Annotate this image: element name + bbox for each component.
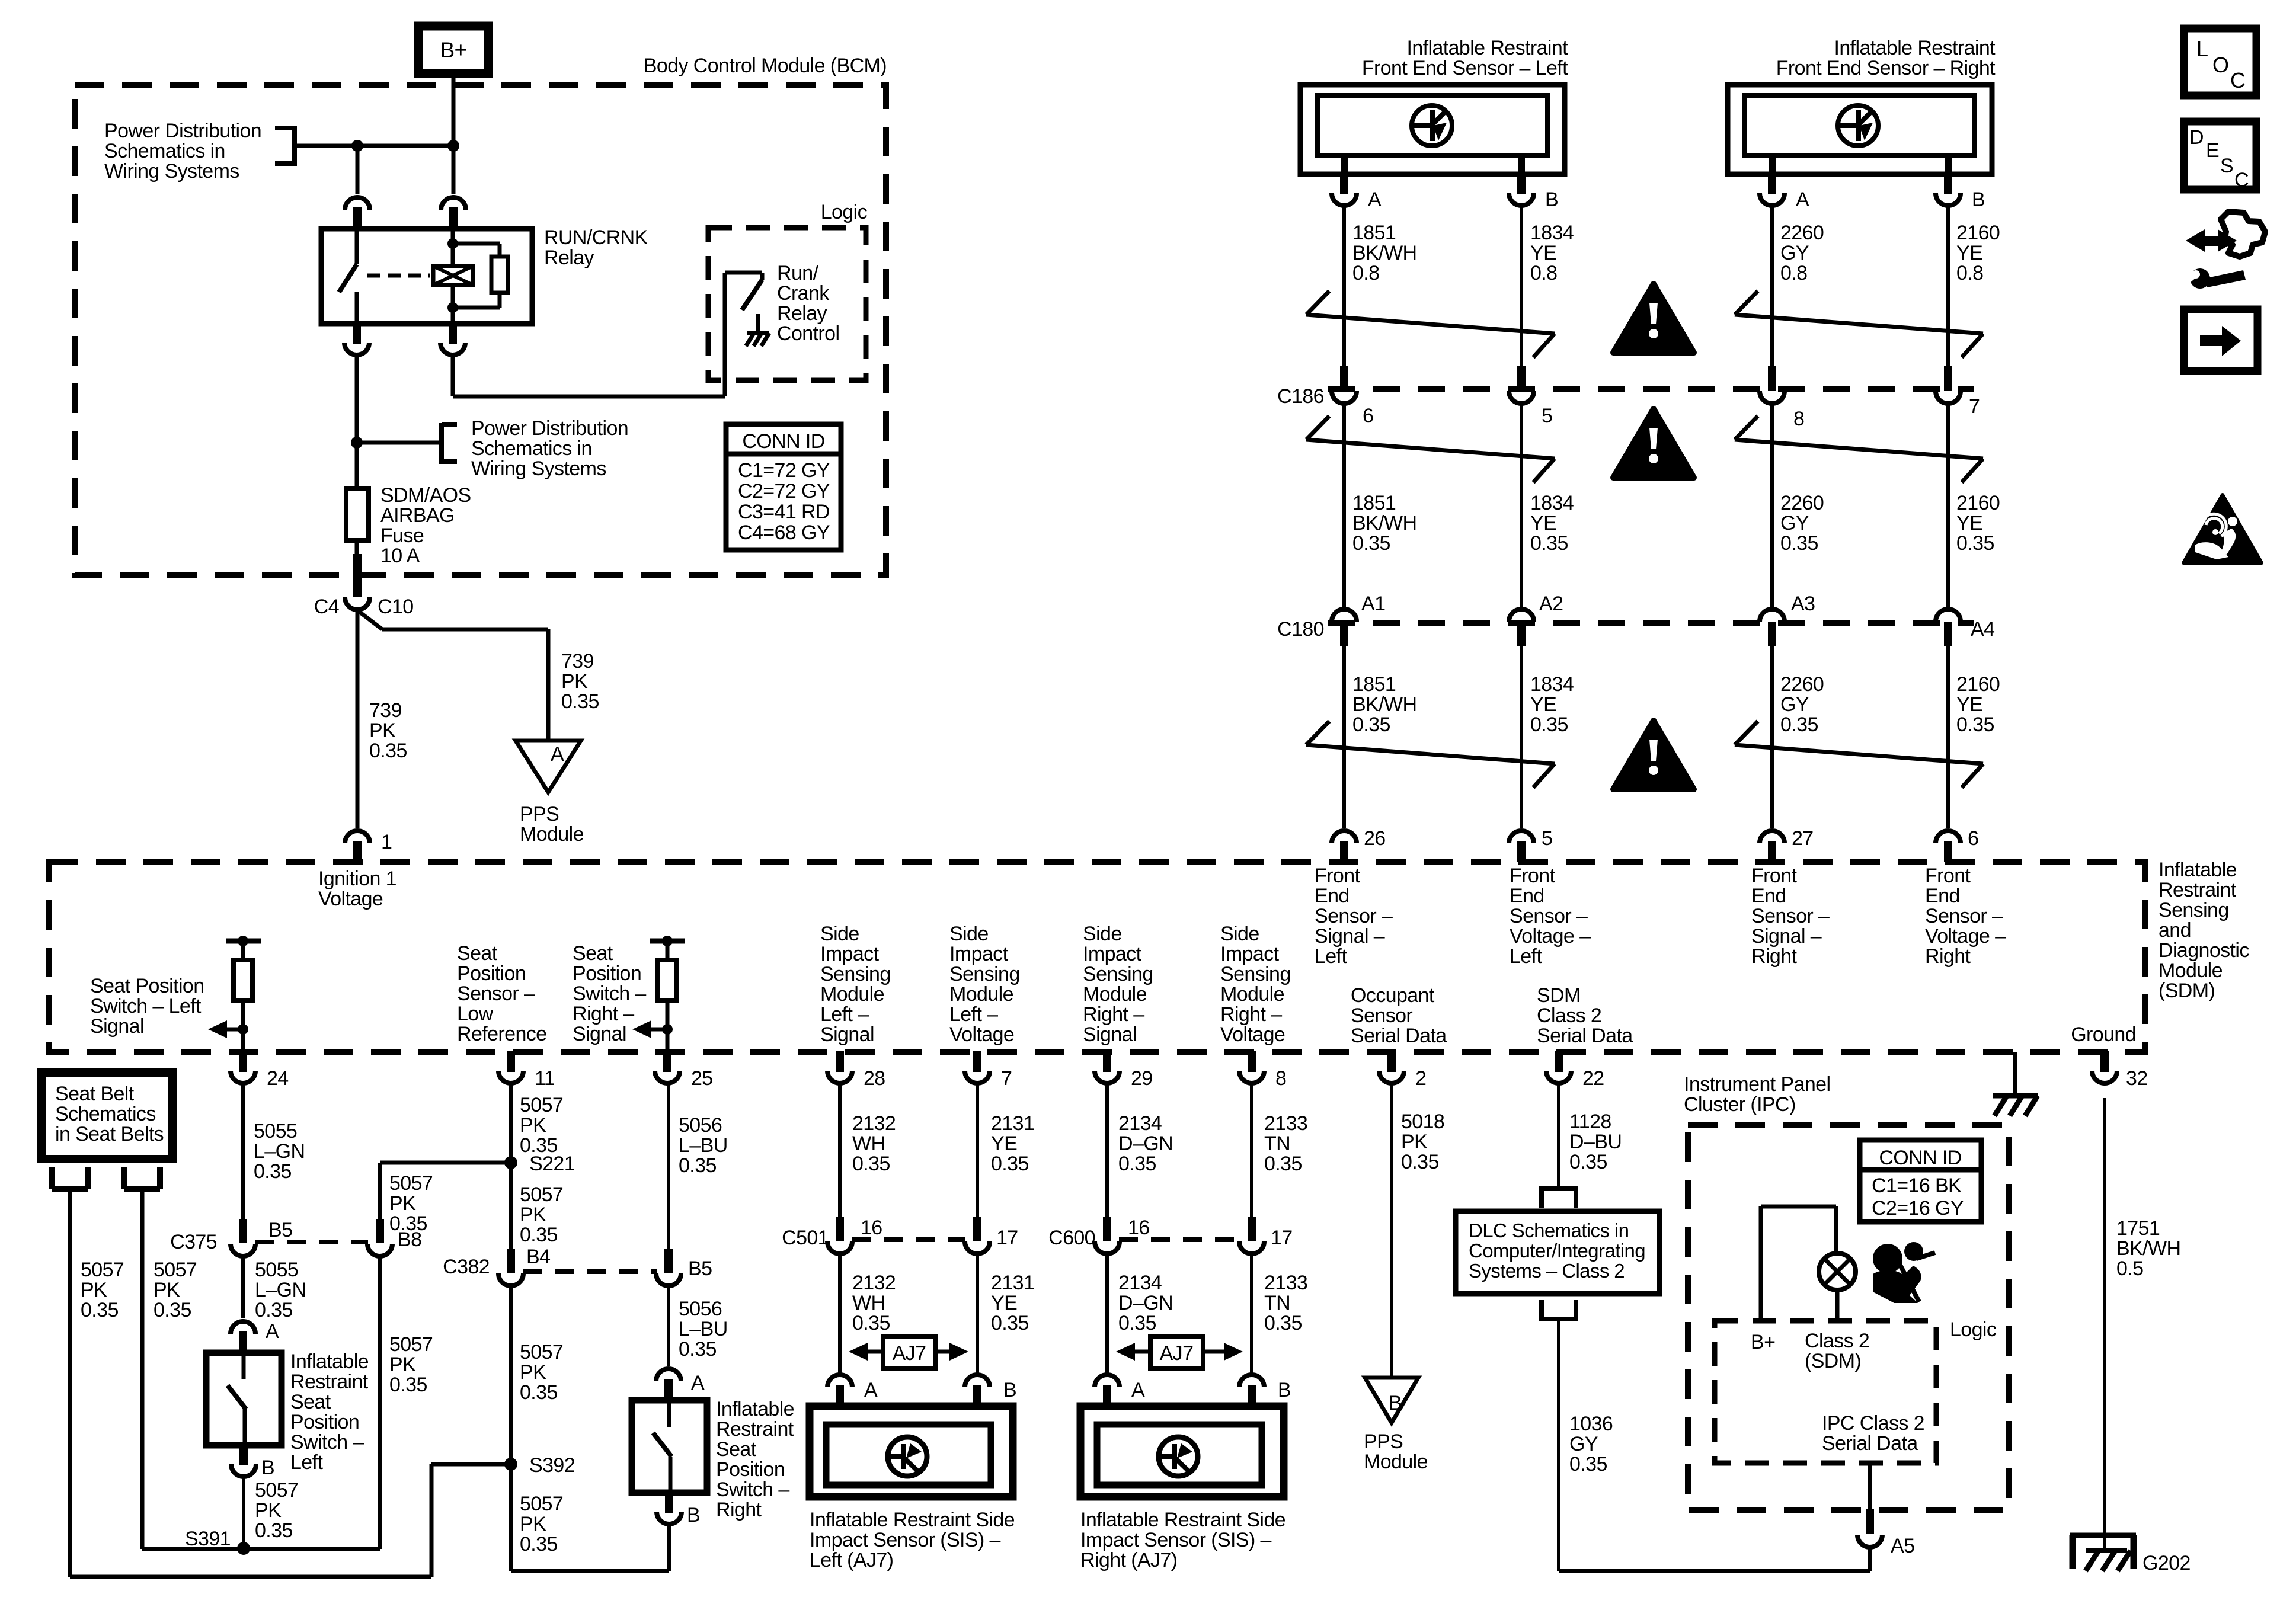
connector SIS right pin B xyxy=(1239,1375,1291,1406)
svg-text:0.35: 0.35 xyxy=(520,1533,558,1555)
svg-text:PK: PK xyxy=(520,1361,546,1384)
connector SDM pin 6 (top) xyxy=(1936,827,1978,862)
connector SIS left pin A xyxy=(827,1375,878,1406)
svg-text:A4: A4 xyxy=(1971,618,1994,641)
svg-text:Schematics in: Schematics in xyxy=(104,140,225,162)
svg-text:Switch –: Switch – xyxy=(573,982,646,1005)
svg-text:Sensor –: Sensor – xyxy=(457,982,535,1005)
component Inflatable Restraint Side Impact Sensor (SIS) - Right xyxy=(1080,1406,1284,1497)
label Occupant Sensor Serial Data xyxy=(1351,984,1447,1047)
svg-text:Module: Module xyxy=(949,983,1013,1006)
svg-text:Switch –: Switch – xyxy=(290,1431,364,1454)
svg-text:GY: GY xyxy=(1780,242,1809,264)
svg-text:B+: B+ xyxy=(1751,1331,1775,1353)
label wire 2133 TN 0.35 (lower) xyxy=(1264,1272,1307,1334)
svg-text:2: 2 xyxy=(1415,1067,1426,1090)
svg-text:Inflatable Restraint Side: Inflatable Restraint Side xyxy=(810,1509,1015,1531)
label wire 2260 GY 0.8 xyxy=(1780,222,1824,284)
svg-text:A2: A2 xyxy=(1539,593,1563,615)
svg-text:Right: Right xyxy=(1925,945,1971,968)
label Front End Sensor - Signal - Left xyxy=(1315,865,1393,968)
svg-text:(SDM): (SDM) xyxy=(1805,1350,1861,1372)
harness marker AJ7 left xyxy=(849,1337,968,1368)
svg-text:Schematics in: Schematics in xyxy=(471,437,592,460)
svg-text:Systems – Class 2: Systems – Class 2 xyxy=(1469,1260,1625,1282)
label Ignition 1 Voltage (SDM pin 1) xyxy=(318,868,396,910)
svg-text:A3: A3 xyxy=(1791,593,1815,615)
label wire 2260 GY 0.35 (lower) xyxy=(1780,673,1824,736)
svg-text:Switch – Left: Switch – Left xyxy=(90,995,202,1017)
svg-text:YE: YE xyxy=(1530,512,1556,534)
svg-text:RUN/CRNK: RUN/CRNK xyxy=(544,226,648,249)
label Seat Position Switch - Right - Signal xyxy=(573,942,646,1045)
svg-text:Inflatable: Inflatable xyxy=(716,1398,794,1420)
label wire 2134 D-GN 0.35 (upper) xyxy=(1118,1112,1173,1175)
label wire 2131 YE 0.35 (upper) xyxy=(991,1112,1034,1175)
svg-text:Sensor –: Sensor – xyxy=(1510,905,1588,927)
svg-text:6: 6 xyxy=(1968,827,1978,850)
svg-text:C: C xyxy=(2230,68,2245,92)
wire 2134 D-GN 0.35 pin 29 to C600 xyxy=(1105,1084,1109,1217)
connector C375 pin B5 xyxy=(231,1219,292,1256)
label wire 1751 BK/WH 0.5 xyxy=(2116,1217,2180,1280)
svg-text:L–BU: L–BU xyxy=(679,1134,728,1157)
signal arrow seat position switch left xyxy=(208,1020,243,1038)
svg-text:D–GN: D–GN xyxy=(1118,1292,1173,1314)
svg-text:Cluster (IPC): Cluster (IPC) xyxy=(1684,1093,1796,1116)
svg-text:BK/WH: BK/WH xyxy=(1352,242,1416,264)
svg-text:Fuse: Fuse xyxy=(380,524,424,547)
svg-text:Right: Right xyxy=(1751,945,1798,968)
svg-text:Sensing: Sensing xyxy=(2159,899,2229,921)
svg-text:AIRBAG: AIRBAG xyxy=(380,504,455,527)
svg-text:Power Distribution: Power Distribution xyxy=(104,120,261,142)
connector SDM pin 29 xyxy=(1095,1051,1153,1090)
svg-text:0.35: 0.35 xyxy=(255,1299,293,1321)
svg-text:Inflatable Restraint Side: Inflatable Restraint Side xyxy=(1080,1509,1285,1531)
svg-text:Left: Left xyxy=(1510,945,1542,968)
svg-text:O: O xyxy=(2212,53,2228,77)
label wire 739 PK 0.35 (left) xyxy=(369,699,407,762)
svg-text:C: C xyxy=(2234,169,2249,191)
label wire 5055 L-GN 0.35 (upper) xyxy=(254,1120,305,1183)
svg-text:0.35: 0.35 xyxy=(255,1519,293,1542)
wire lamp to IPC logic box xyxy=(1835,1290,1840,1321)
svg-text:C10: C10 xyxy=(378,596,414,618)
svg-text:L–BU: L–BU xyxy=(679,1318,728,1340)
svg-text:0.35: 0.35 xyxy=(154,1299,191,1321)
svg-text:Right –: Right – xyxy=(1083,1003,1144,1026)
connector SDM pin 27 xyxy=(1760,827,1814,862)
svg-text:Diagnostic: Diagnostic xyxy=(2159,939,2249,962)
svg-text:Inflatable: Inflatable xyxy=(2159,859,2237,881)
svg-text:26: 26 xyxy=(1364,827,1386,850)
svg-text:Sensor –: Sensor – xyxy=(1925,905,2003,927)
svg-text:Left: Left xyxy=(290,1451,323,1474)
svg-text:End: End xyxy=(1925,885,1960,907)
svg-text:Serial Data: Serial Data xyxy=(1537,1025,1633,1047)
connector tab seat belt feed 2 xyxy=(124,1167,160,1189)
svg-text:B: B xyxy=(261,1457,274,1479)
svg-text:5057: 5057 xyxy=(520,1341,563,1363)
svg-text:PK: PK xyxy=(520,1513,546,1535)
svg-text:Inflatable Restraint: Inflatable Restraint xyxy=(1407,37,1569,59)
svg-text:Occupant: Occupant xyxy=(1351,984,1435,1007)
wire 2160 YE 0.35 C180 to SDM pin 6 xyxy=(1946,646,1950,828)
svg-text:Position: Position xyxy=(716,1458,785,1481)
svg-text:0.35: 0.35 xyxy=(679,1154,717,1177)
label Class 2 (SDM) xyxy=(1805,1330,1869,1372)
svg-text:in Seat Belts: in Seat Belts xyxy=(55,1123,164,1145)
wire 5056 L-BU 0.35 B5 to switch right A xyxy=(667,1285,670,1366)
svg-text:1: 1 xyxy=(381,831,392,853)
svg-text:Computer/Integrating: Computer/Integrating xyxy=(1469,1240,1645,1262)
svg-text:2160: 2160 xyxy=(1956,673,2000,696)
svg-text:Module: Module xyxy=(1364,1451,1428,1473)
interrupt symbol row 3 left pair xyxy=(1306,721,1555,788)
connector SDM pin 11 xyxy=(498,1051,555,1090)
connector C186 pin 5 xyxy=(1509,366,1552,427)
svg-text:S221: S221 xyxy=(529,1153,575,1175)
svg-text:PK: PK xyxy=(1401,1131,1428,1153)
svg-text:L: L xyxy=(2196,37,2208,61)
svg-text:Signal –: Signal – xyxy=(1751,925,1822,948)
svg-text:0.35: 0.35 xyxy=(991,1153,1029,1175)
svg-text:0.35: 0.35 xyxy=(369,740,407,762)
switch Run/Crank Relay Control xyxy=(742,273,762,310)
svg-text:Impact Sensor (SIS) –: Impact Sensor (SIS) – xyxy=(810,1529,1001,1551)
lamp airbag indicator (IPC) xyxy=(1819,1253,1856,1290)
connector front sensor left pin B xyxy=(1509,173,1558,211)
svg-text:DLC Schematics in: DLC Schematics in xyxy=(1469,1219,1629,1241)
svg-text:Run/: Run/ xyxy=(777,262,819,284)
label Side Impact Sensing Module Left - Voltage xyxy=(949,923,1020,1046)
svg-text:2260: 2260 xyxy=(1780,673,1824,696)
wire 1834 YE 0.35 C180 to SDM pin 5 xyxy=(1520,646,1523,828)
bracket DLC output xyxy=(1539,1300,1578,1319)
svg-text:0.35: 0.35 xyxy=(1780,532,1818,555)
svg-text:Impact Sensor (SIS) –: Impact Sensor (SIS) – xyxy=(1080,1529,1272,1551)
svg-text:25: 25 xyxy=(691,1067,713,1090)
icon airbag caution triangle xyxy=(2183,495,2262,563)
table CONN ID (IPC) xyxy=(1860,1140,1981,1222)
svg-text:0.35: 0.35 xyxy=(254,1160,292,1183)
label wire 2131 YE 0.35 (lower) xyxy=(991,1272,1034,1334)
node splice S391 xyxy=(185,1528,250,1555)
warning triangle row 2 xyxy=(1613,409,1694,478)
svg-text:Right –: Right – xyxy=(573,1003,634,1025)
module box Instrument Panel Cluster (IPC) dashed outline xyxy=(1688,1125,2009,1510)
svg-text:B5: B5 xyxy=(688,1257,712,1280)
off-page reference B to PPS Module xyxy=(1365,1378,1418,1423)
svg-text:Front: Front xyxy=(1510,865,1556,887)
svg-text:YE: YE xyxy=(991,1132,1017,1155)
table CONN ID (BCM) xyxy=(726,424,841,550)
svg-text:Impact: Impact xyxy=(1083,943,1142,965)
svg-text:Sensing: Sensing xyxy=(1083,963,1153,985)
svg-text:Restraint: Restraint xyxy=(290,1371,369,1393)
svg-text:5056: 5056 xyxy=(679,1114,722,1137)
resistor seat position switch right (SDM) xyxy=(650,936,685,1052)
svg-text:Serial Data: Serial Data xyxy=(1351,1025,1447,1047)
svg-text:Module: Module xyxy=(2159,959,2223,982)
interrupt symbol row 1 right pair xyxy=(1735,291,1983,357)
connector seat position switch left pin B xyxy=(231,1444,274,1479)
logic box IPC Logic dashed outline xyxy=(1715,1318,1997,1463)
svg-text:Schematics: Schematics xyxy=(55,1103,156,1125)
svg-text:C2=72 GY: C2=72 GY xyxy=(738,480,830,502)
svg-text:0.8: 0.8 xyxy=(1352,262,1379,284)
svg-text:22: 22 xyxy=(1582,1067,1604,1090)
svg-text:S: S xyxy=(2220,155,2233,177)
connector SDM pin 28 xyxy=(827,1051,885,1090)
connector C186 pin 8 xyxy=(1760,366,1804,430)
svg-text:B: B xyxy=(1545,188,1558,211)
label PPS Module (B) xyxy=(1364,1430,1428,1473)
label Seat Belt Schematics in Seat Belts xyxy=(55,1083,164,1145)
svg-text:Sensing: Sensing xyxy=(1220,963,1291,985)
label wire 1834 YE 0.35 (lower) xyxy=(1530,673,1574,736)
svg-text:A: A xyxy=(551,743,564,766)
connector SDM pin 22 xyxy=(1546,1051,1604,1090)
svg-text:Instrument Panel: Instrument Panel xyxy=(1684,1073,1830,1096)
svg-text:1851: 1851 xyxy=(1352,222,1396,244)
svg-text:Front: Front xyxy=(1925,865,1971,887)
svg-text:C4: C4 xyxy=(314,596,339,618)
svg-text:5057: 5057 xyxy=(389,1172,433,1195)
label Inflatable Restraint Side Impact Sensor (SIS) - Left (AJ7) xyxy=(810,1509,1015,1571)
wire 1834 YE 0.35 C186 to C180 xyxy=(1520,403,1523,610)
svg-text:1834: 1834 xyxy=(1530,673,1574,696)
svg-text:A: A xyxy=(1796,188,1809,211)
label Front End Sensor - Signal - Right xyxy=(1751,865,1830,968)
connector C186 harness line xyxy=(1277,385,1974,408)
icon LOC box xyxy=(2184,28,2256,95)
label RUN/CRNK Relay xyxy=(544,226,648,269)
svg-text:0.8: 0.8 xyxy=(1780,262,1807,284)
svg-text:28: 28 xyxy=(864,1067,885,1090)
module box DLC Schematics in Computer/Integrating Systems - Class 2 xyxy=(1456,1211,1659,1294)
svg-text:PK: PK xyxy=(561,670,588,693)
wire from power distribution bracket to B+ drop xyxy=(295,144,453,148)
svg-text:Impact: Impact xyxy=(949,943,1009,965)
wire splice bus S391 horizontal xyxy=(142,1547,380,1551)
module box Inflatable Restraint Sensing and Diagnostic Module (SDM) dashed outline xyxy=(49,862,2145,1052)
label SDM Class 2 Serial Data xyxy=(1537,984,1633,1047)
wire junction to lower power distribution bracket xyxy=(357,441,442,445)
svg-text:PK: PK xyxy=(520,1114,546,1137)
svg-text:E: E xyxy=(2206,139,2219,162)
connector seat position switch right pin A xyxy=(656,1369,705,1400)
svg-text:Serial Data: Serial Data xyxy=(1822,1432,1918,1455)
svg-text:Right –: Right – xyxy=(1220,1003,1282,1026)
connector tab seat belt feed 1 xyxy=(52,1167,88,1189)
svg-text:Voltage –: Voltage – xyxy=(1925,925,2006,948)
svg-text:5057: 5057 xyxy=(154,1259,197,1281)
svg-text:17: 17 xyxy=(1271,1227,1293,1249)
svg-text:0.35: 0.35 xyxy=(1352,532,1390,555)
svg-text:Wiring Systems: Wiring Systems xyxy=(471,457,606,480)
svg-text:YE: YE xyxy=(1956,693,1982,716)
label wire 5056 L-BU 0.35 (upper) xyxy=(679,1114,728,1177)
svg-text:and: and xyxy=(2159,919,2191,942)
svg-text:Right (AJ7): Right (AJ7) xyxy=(1080,1549,1177,1571)
svg-text:5057: 5057 xyxy=(520,1094,563,1116)
label Side Impact Sensing Module Right - Signal xyxy=(1083,923,1153,1046)
svg-text:C180: C180 xyxy=(1277,618,1324,641)
svg-text:YE: YE xyxy=(991,1292,1017,1314)
svg-text:(SDM): (SDM) xyxy=(2159,980,2215,1002)
svg-text:0.35: 0.35 xyxy=(1956,532,1994,555)
svg-text:2160: 2160 xyxy=(1956,222,2000,244)
svg-text:2160: 2160 xyxy=(1956,492,2000,514)
connector C501 pin 16 xyxy=(827,1217,882,1254)
svg-text:Position: Position xyxy=(290,1411,359,1433)
label Inflatable Restraint Sensing and Diagnostic Module (SDM) xyxy=(2159,859,2249,1002)
connector C4 / C10 xyxy=(314,554,414,618)
svg-text:A: A xyxy=(1131,1379,1145,1401)
svg-text:GY: GY xyxy=(1780,693,1809,716)
label wire 1851 BK/WH 0.35 (mid) xyxy=(1352,492,1416,555)
label Power Distribution Schematics in Wiring Systems (lower) xyxy=(471,417,628,480)
label wire 5057 PK 0.35 (seat belt 2) xyxy=(154,1259,197,1321)
svg-text:Sensor: Sensor xyxy=(1351,1004,1412,1027)
svg-text:GY: GY xyxy=(1780,512,1809,534)
svg-text:B: B xyxy=(687,1504,700,1526)
svg-text:Front End Sensor – Left: Front End Sensor – Left xyxy=(1362,57,1568,79)
svg-text:2132: 2132 xyxy=(852,1112,896,1135)
svg-text:0.35: 0.35 xyxy=(1569,1151,1607,1173)
svg-text:Sensing: Sensing xyxy=(820,963,891,985)
label wire 5057 PK 0.35 (B4 to S392) xyxy=(520,1341,563,1404)
label SDM/AOS AIRBAG Fuse 10 A xyxy=(380,484,471,567)
wire 2160 YE 0.8 sensor right B to C186 xyxy=(1946,207,1950,366)
svg-text:A1: A1 xyxy=(1361,593,1385,615)
svg-text:YE: YE xyxy=(1956,242,1982,264)
svg-text:Module: Module xyxy=(820,983,884,1006)
svg-text:SDM/AOS: SDM/AOS xyxy=(380,484,471,507)
connector SDM pin 25 xyxy=(655,1051,713,1090)
svg-text:Seat: Seat xyxy=(716,1438,757,1461)
label IPC Class 2 Serial Data xyxy=(1822,1412,1924,1455)
svg-text:Side: Side xyxy=(820,923,859,945)
wire 2131 YE 0.35 C501 to SIS left B xyxy=(976,1253,979,1375)
svg-text:Voltage: Voltage xyxy=(318,888,383,910)
svg-text:2260: 2260 xyxy=(1780,492,1824,514)
svg-text:A: A xyxy=(266,1320,279,1343)
label Front End Sensor - Voltage - Right xyxy=(1925,865,2006,968)
svg-text:B4: B4 xyxy=(526,1246,550,1268)
connector seat position switch right pin B xyxy=(657,1491,700,1526)
wire 5057 PK 0.35 switch B to S391 xyxy=(242,1478,245,1548)
switch Inflatable Restraint Seat Position Switch - Right xyxy=(632,1400,707,1493)
svg-text:1036: 1036 xyxy=(1569,1413,1613,1435)
connector C600 pin 17 xyxy=(1239,1217,1293,1254)
svg-text:Ignition 1: Ignition 1 xyxy=(318,868,396,890)
svg-text:739: 739 xyxy=(369,699,402,722)
svg-text:32: 32 xyxy=(2126,1067,2148,1090)
svg-text:Ground: Ground xyxy=(2071,1023,2136,1046)
svg-text:Front: Front xyxy=(1751,865,1798,887)
svg-text:C375: C375 xyxy=(170,1231,217,1253)
wire 1851 BK/WH 0.35 C186 to C180 xyxy=(1342,403,1346,610)
wire 739 PK 0.35 branch to PPS module xyxy=(357,610,548,741)
svg-text:0.35: 0.35 xyxy=(389,1374,427,1396)
bracket DLC input xyxy=(1539,1189,1578,1208)
label Side Impact Sensing Module Left - Signal xyxy=(820,923,891,1046)
connector C600 dashed link xyxy=(1048,1227,1240,1249)
svg-text:L–GN: L–GN xyxy=(254,1140,305,1163)
off-page reference A to PPS Module xyxy=(516,741,581,792)
svg-text:D–GN: D–GN xyxy=(1118,1132,1173,1155)
connector SIS left pin B xyxy=(965,1375,1016,1406)
svg-text:0.35: 0.35 xyxy=(561,690,599,713)
svg-text:Voltage –: Voltage – xyxy=(1510,925,1591,948)
svg-text:0.35: 0.35 xyxy=(1780,713,1818,736)
label wire 1851 BK/WH 0.35 (lower) xyxy=(1352,673,1416,736)
wire 2134 D-GN 0.35 C600 to SIS right A xyxy=(1105,1253,1109,1375)
wire 2132 WH 0.35 pin 28 to C501 xyxy=(838,1084,842,1217)
svg-text:PPS: PPS xyxy=(520,803,559,825)
connector SIS right pin A xyxy=(1095,1375,1145,1406)
svg-text:8: 8 xyxy=(1275,1067,1286,1090)
svg-text:Sensor –: Sensor – xyxy=(1315,905,1393,927)
svg-text:Crank: Crank xyxy=(777,282,830,305)
svg-text:PK: PK xyxy=(255,1499,282,1522)
connector C382 pin B5 xyxy=(656,1249,712,1286)
svg-text:Signal: Signal xyxy=(90,1015,144,1038)
svg-text:8: 8 xyxy=(1793,408,1804,430)
wire S221 branch left to B8 xyxy=(380,1163,511,1219)
svg-text:YE: YE xyxy=(1530,693,1556,716)
svg-text:6: 6 xyxy=(1363,405,1373,427)
svg-text:AJ7: AJ7 xyxy=(893,1342,926,1365)
svg-text:PK: PK xyxy=(369,719,396,742)
svg-text:B: B xyxy=(1003,1379,1016,1401)
label wire 5057 PK 0.35 (below S221) xyxy=(520,1183,563,1246)
label wire 5057 PK 0.35 (B8 branch) xyxy=(389,1333,433,1396)
switch Inflatable Restraint Seat Position Switch - Left xyxy=(206,1353,282,1445)
connector seat position switch left pin A xyxy=(231,1320,279,1353)
svg-text:2134: 2134 xyxy=(1118,1272,1162,1294)
wire 2133 TN 0.35 C600 to SIS right B xyxy=(1250,1253,1253,1375)
logic box Logic (BCM) dashed outline xyxy=(708,201,868,380)
label wire 2160 YE 0.35 (lower) xyxy=(1956,673,2000,736)
svg-text:Position: Position xyxy=(573,962,641,985)
svg-text:Power Distribution: Power Distribution xyxy=(471,417,628,440)
label wire 2132 WH 0.35 (upper) xyxy=(852,1112,896,1175)
svg-text:5055: 5055 xyxy=(254,1120,297,1142)
svg-text:CONN ID: CONN ID xyxy=(742,430,824,453)
svg-text:27: 27 xyxy=(1792,827,1814,850)
wire 1036 GY 0.35 DLC to IPC A5 xyxy=(1559,1319,1870,1571)
svg-text:PK: PK xyxy=(520,1204,546,1226)
connector C186 pin 7 xyxy=(1936,366,1980,418)
svg-text:5057: 5057 xyxy=(520,1183,563,1206)
label wire 1834 YE 0.35 (mid) xyxy=(1530,492,1574,555)
label wire 5057 PK 0.35 (seat belt 1) xyxy=(81,1259,124,1321)
label wire 1036 GY 0.35 xyxy=(1569,1413,1613,1475)
connector C180 pin A1 xyxy=(1332,593,1385,646)
harness marker AJ7 right xyxy=(1116,1337,1243,1368)
wire 2133 TN 0.35 pin 8 to C600 xyxy=(1250,1084,1253,1217)
svg-text:0.35: 0.35 xyxy=(991,1312,1029,1334)
svg-text:GY: GY xyxy=(1569,1433,1598,1455)
svg-text:Switch –: Switch – xyxy=(716,1478,789,1501)
svg-text:C4=68 GY: C4=68 GY xyxy=(738,521,830,544)
svg-text:29: 29 xyxy=(1131,1067,1153,1090)
wire lower bus seat belt 1 to S392 riser xyxy=(70,1464,511,1577)
